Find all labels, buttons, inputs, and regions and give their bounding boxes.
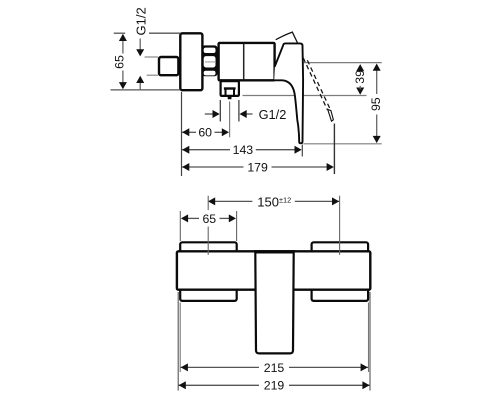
- svg-text:95: 95: [369, 97, 383, 111]
- escutcheon plate (side view): [180, 33, 202, 90]
- open-position lever thin outline: [276, 32, 298, 43]
- handle (front, hanging down): [255, 252, 293, 353]
- dim 219: [178, 384, 259, 386]
- outlet tip nub: [228, 96, 232, 99]
- right plate centerline: [339, 196, 341, 255]
- left wall plate (front): [180, 242, 237, 301]
- dim G1/2 arrows and label: [205, 113, 214, 115]
- svg-text:219: 219: [264, 379, 285, 393]
- dim G1/2 (bottom outlet) extension lines: [219, 100, 221, 122]
- mixer body block: [219, 43, 275, 80]
- centerline of faucet axis (horizontal gray): [203, 62, 382, 64]
- outlet hex nut detail: [224, 87, 236, 89]
- extension line at handle tip x=302.3: [301, 145, 303, 157]
- dim 95: [376, 69, 378, 94]
- svg-text:65: 65: [202, 212, 216, 226]
- svg-text:65: 65: [112, 55, 126, 69]
- mixer body bar (front): [177, 251, 370, 289]
- wire: extension line y=95.4 (outlet bottom level): [243, 95, 367, 97]
- svg-text:179: 179: [247, 160, 268, 174]
- extension line from escutcheon left edge down: [181, 92, 183, 176]
- dashed swung-handle edge 1: [303, 58, 327, 110]
- extension line at swung tip x=334.4: [333, 124, 335, 175]
- swung handle tip: [328, 109, 334, 121]
- svg-text:G1/2: G1/2: [259, 107, 287, 122]
- svg-text:150±12: 150±12: [257, 194, 291, 209]
- dim 150±12: [208, 200, 252, 202]
- wall union square G1/2: [159, 57, 178, 75]
- lever handle (head and blade, side view): [274, 43, 303, 143]
- svg-text:G1/2: G1/2: [134, 7, 149, 35]
- right wall plate (front): [312, 242, 369, 301]
- body joint line: [243, 44, 245, 80]
- wire: extension line y=143.8 (handle tip level): [304, 143, 382, 145]
- left plate centerline: [207, 196, 209, 210]
- dim 60: [182, 131, 196, 133]
- dim 39: [359, 68, 361, 70]
- dim 65 (escutcheon height, left): [114, 32, 126, 34]
- dashed swung-handle edge 2: [307, 59, 331, 111]
- svg-text:215: 215: [264, 361, 285, 375]
- dim G1/2 (top, wall union): [145, 56, 158, 58]
- svg-text:60: 60: [198, 126, 212, 140]
- svg-text:39: 39: [353, 70, 367, 84]
- dim 143: [182, 149, 230, 151]
- outlet centerline vertical: [229, 102, 231, 138]
- bottom-view extension lines right: [369, 292, 371, 391]
- union nut (black with facet slots): [202, 45, 218, 76]
- dim 65 (plate width): [179, 211, 181, 241]
- dim 179: [182, 166, 243, 168]
- bottom-view extension lines left: [177, 292, 179, 391]
- dim 215: [180, 366, 259, 368]
- svg-text:143: 143: [233, 143, 254, 157]
- bar top edge over handle: [254, 250, 295, 252]
- bottom outlet fitting G1/2: [221, 81, 239, 96]
